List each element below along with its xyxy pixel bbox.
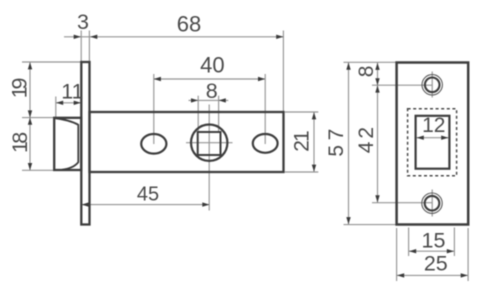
svg-text:21: 21 [291, 131, 314, 152]
svg-text:45: 45 [137, 184, 159, 206]
svg-text:18: 18 [8, 132, 32, 153]
svg-text:3: 3 [77, 10, 89, 34]
svg-text:19: 19 [7, 79, 31, 99]
svg-text:12: 12 [422, 114, 445, 137]
svg-text:42: 42 [355, 124, 378, 153]
svg-text:8: 8 [206, 79, 218, 103]
svg-text:57: 57 [325, 124, 348, 156]
svg-text:11: 11 [61, 79, 83, 103]
svg-text:40: 40 [200, 52, 224, 77]
svg-text:25: 25 [424, 251, 448, 275]
svg-text:68: 68 [177, 12, 201, 37]
svg-text:15: 15 [422, 229, 446, 253]
svg-text:8: 8 [355, 66, 378, 78]
